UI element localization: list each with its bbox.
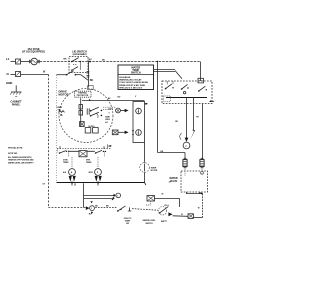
svg-text:N: N xyxy=(7,72,9,76)
wire gnd xyxy=(15,85,17,92)
box bottom bus xyxy=(166,97,207,99)
clutch xyxy=(183,142,190,149)
water valve box xyxy=(181,171,208,192)
svg-text:SWITCH: SWITCH xyxy=(131,71,141,75)
svg-text:W: W xyxy=(162,193,164,195)
svg-text:PANEL: PANEL xyxy=(12,102,21,106)
valve feed vertical xyxy=(157,62,159,153)
svg-text:NOTE TAG: NOTE TAG xyxy=(8,152,18,155)
lid switch box xyxy=(69,57,88,73)
wire timer to bus xyxy=(144,172,146,182)
connector marks xyxy=(87,72,90,77)
svg-text:L1: L1 xyxy=(6,57,10,61)
svg-text:(IF SO EQUIPPED): (IF SO EQUIPPED) xyxy=(22,50,45,54)
pressure contact 1 xyxy=(165,81,174,89)
dashed to pressure switch xyxy=(132,209,158,211)
svg-text:TIMER: TIMER xyxy=(63,162,69,164)
svg-text:SPECIAL NOTE:: SPECIAL NOTE: xyxy=(8,147,23,150)
motor center column xyxy=(80,98,82,127)
push to start switch xyxy=(117,206,131,212)
svg-text:SWITCH: SWITCH xyxy=(145,223,153,225)
connector circle xyxy=(116,108,121,113)
line A horizontal xyxy=(84,195,114,197)
winding boxes pair xyxy=(85,126,98,133)
wire xyxy=(118,131,125,133)
corner contact right xyxy=(210,100,215,102)
agitate solenoid xyxy=(69,169,76,182)
timer contact row dashed bus xyxy=(57,148,111,150)
wire motor to plug box xyxy=(82,100,145,102)
block with X xyxy=(80,122,85,127)
wire vertical to motor xyxy=(88,62,90,88)
main bus line xyxy=(57,182,145,184)
wire N xyxy=(21,74,49,76)
svg-text:BK: BK xyxy=(90,79,94,82)
svg-text:TIMER IN OFF POSITION AND: TIMER IN OFF POSITION AND xyxy=(8,159,34,162)
cold valve feed xyxy=(202,104,204,160)
svg-text:TIMER: TIMER xyxy=(86,162,92,164)
svg-text:WARM-BLUE & VIOLET: WARM-BLUE & VIOLET xyxy=(119,79,142,82)
junction dot right of box xyxy=(145,103,148,105)
wire N lead xyxy=(11,74,16,76)
svg-text:WATER LEVEL: WATER LEVEL xyxy=(143,219,157,222)
start switch contacts xyxy=(90,107,102,118)
svg-text:WATER LEVEL SW AT EMPTY: WATER LEVEL SW AT EMPTY xyxy=(8,161,34,164)
relay actuation arrow xyxy=(84,198,112,200)
svg-text:MOTOR: MOTOR xyxy=(59,93,69,97)
arrow to terminal 4 xyxy=(121,110,125,112)
hot valve coil xyxy=(183,158,187,168)
motor protector arrow xyxy=(86,206,90,210)
winding block 2 xyxy=(79,111,83,115)
fuse F1 xyxy=(30,58,40,65)
special note text xyxy=(8,147,34,165)
junction xyxy=(157,61,159,63)
svg-text:(schematic): (schematic) xyxy=(73,52,87,56)
tick below bus xyxy=(74,183,76,185)
arrow above circle xyxy=(90,201,92,203)
lid switch lower contact xyxy=(66,71,88,81)
winding block 1 xyxy=(79,105,83,109)
terminal 8 xyxy=(136,130,142,136)
wire xyxy=(21,61,30,63)
clutch solenoid wires xyxy=(186,98,188,139)
double wire from temp switch xyxy=(154,70,176,72)
valve bottom wire xyxy=(187,192,203,194)
contact on box top xyxy=(198,78,204,83)
wire N to lid switch xyxy=(57,74,67,76)
svg-text:W: W xyxy=(198,207,200,209)
svg-text:SPEC-BU & V, BK & W-V: SPEC-BU & V, BK & W-V xyxy=(119,87,143,89)
thermal protector xyxy=(75,91,92,97)
pressure contact 3 xyxy=(198,86,207,92)
wire L1 bus to right xyxy=(40,61,201,63)
svg-text:SW: SW xyxy=(126,223,129,225)
wire vertical from N xyxy=(48,75,50,208)
water temp switch legend box xyxy=(118,65,154,90)
dashed to switch xyxy=(95,207,117,209)
line A vertical xyxy=(83,183,85,207)
wire from interlock xyxy=(155,199,180,208)
svg-text:MOTOR: MOTOR xyxy=(151,170,158,172)
interlock box xyxy=(147,196,155,202)
cold valve coil xyxy=(200,158,204,168)
pressure switch xyxy=(158,207,172,217)
connector block L1 xyxy=(16,59,21,64)
timer contact right xyxy=(95,150,106,153)
lid switch contact upper xyxy=(71,58,81,70)
bottom wire to valve return xyxy=(173,215,188,218)
svg-text:4-8: 4-8 xyxy=(105,121,107,124)
wire vertical dotted xyxy=(56,75,58,183)
wire L1 drop to box xyxy=(200,62,202,82)
drops to solenoids xyxy=(71,157,73,168)
valve stems xyxy=(184,167,186,176)
connector block N xyxy=(16,72,21,77)
timer cam box xyxy=(79,151,87,157)
motor top terminal xyxy=(88,86,94,90)
connector box xyxy=(188,214,194,219)
svg-text:EMPTY: EMPTY xyxy=(161,221,168,223)
lower connector box xyxy=(112,130,118,135)
svg-text:ALL WIRING SHOWN WITH: ALL WIRING SHOWN WITH xyxy=(8,156,32,159)
plug box xyxy=(133,102,145,143)
spin solenoid xyxy=(95,169,102,182)
bottom dashed feed xyxy=(48,207,85,209)
junction xyxy=(89,61,91,63)
motor exit dashes xyxy=(103,106,116,108)
lid switch contact inner xyxy=(71,65,78,71)
svg-text:GND: GND xyxy=(6,81,13,85)
timer motor xyxy=(140,163,150,173)
start winding xyxy=(57,106,65,116)
row link wires xyxy=(70,150,95,152)
inner sub box xyxy=(164,96,171,101)
terminal 4 xyxy=(136,108,142,114)
capacitor marks xyxy=(87,108,89,114)
extra dashed stubs xyxy=(58,149,105,158)
timer contact left xyxy=(59,151,70,154)
wire L1 lead xyxy=(11,61,16,63)
water level switch dashed box xyxy=(162,81,212,104)
wire plug box down to timer motor xyxy=(144,143,146,163)
drive motor circle xyxy=(59,89,113,143)
svg-text:HIGH-BLUE: HIGH-BLUE xyxy=(119,77,131,79)
chassis ground xyxy=(10,92,21,97)
arrow below circle xyxy=(91,212,93,214)
svg-text:M WDG: M WDG xyxy=(88,126,95,128)
svg-text:THERMAL: THERMAL xyxy=(78,92,88,95)
pressure contact 2 xyxy=(181,84,189,93)
wire lid switch to junction xyxy=(88,61,90,63)
small circle component xyxy=(90,206,95,211)
